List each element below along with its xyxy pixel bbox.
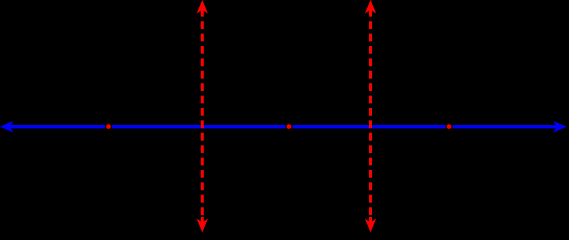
top arrowhead of line 1 (198, 1, 208, 13)
bottom arrowhead of line 1 (198, 220, 208, 232)
vertical dashed asymptote line 2 (x=370) (366, 1, 376, 231)
test point dot 2 (x=289) (286, 124, 291, 129)
vertical dashed asymptote line 1 (x=202) (198, 1, 208, 231)
test point dot 2 (x=289) black halo (285, 123, 292, 130)
top arrowhead of line 2 (366, 1, 376, 13)
number line (blue horizontal line) (9, 125, 558, 128)
test point dot 1 (x=108) (106, 124, 111, 129)
test point dot 1 (x=108) black halo (105, 123, 112, 130)
test point dot 3 (x=449) black halo (445, 123, 452, 130)
right arrowhead of number line (554, 122, 566, 132)
left arrowhead of number line (1, 122, 13, 132)
bottom arrowhead of line 2 (366, 220, 376, 232)
test point dot 3 (x=449) (446, 124, 451, 129)
